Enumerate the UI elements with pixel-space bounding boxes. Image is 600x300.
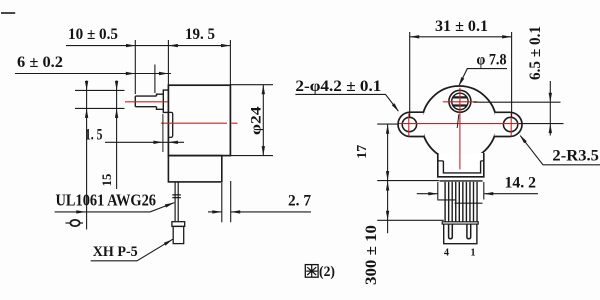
left ear hole [402,117,416,131]
left mounting ear [398,112,424,136]
dimension 2.7 [208,211,222,213]
lead wire (side view) [175,182,178,222]
dimension 1.5 [105,141,184,143]
svg-text:19. 5: 19. 5 [185,26,215,43]
extension line plate face [162,114,164,152]
extension ear center left [377,123,399,125]
dimension 17 / 300 vertical line [387,124,389,233]
dimension 14.2 [417,193,438,195]
svg-text:φ 7.8: φ 7.8 [477,52,507,69]
extension connector top [377,219,444,221]
dimension 6±0.2 [15,73,171,75]
shaft diameter guide line lower [75,107,125,109]
body top extension to phi24 dim [230,84,273,86]
extension skirt bottom [377,180,439,182]
shaft boss outer circle [449,90,471,112]
svg-text:10 ± 0.5: 10 ± 0.5 [68,26,118,43]
border tick top-left [1,12,15,14]
dimension 31±0.1 [410,36,512,38]
shaft diameter guide line upper [75,89,125,91]
shaft [135,96,156,107]
svg-text:1: 1 [471,248,476,259]
red centerlines front view [399,123,523,125]
extension line shaft step [154,65,156,94]
leader 2-R3.5 [520,136,600,165]
extension body right low [230,181,232,222]
shaft circle [452,93,468,109]
svg-text:(2): (2) [319,264,335,280]
wire bundle [445,182,477,222]
dimension 6.5±0.1 [549,81,551,136]
front plate [163,90,168,112]
dimension 19.5 line [168,44,178,47]
dimension phi24 line [262,85,264,156]
vertical leader line 1 [86,81,88,230]
label underline XH P-5 [91,239,173,261]
connector left prong [449,224,453,239]
phi symbol [66,222,84,224]
svg-text:6.5 ± 0.1: 6.5 ± 0.1 [527,26,544,80]
connector (front view) top bar [442,222,478,224]
svg-text:300 ± 10: 300 ± 10 [363,225,380,285]
svg-text:6 ± 0.2: 6 ± 0.2 [17,54,63,71]
svg-text:15: 15 [99,173,114,186]
skirt top lips [438,160,484,162]
figure label: glyph tu [305,265,318,278]
connector right prong [467,224,471,239]
leader 2-phi4.2 underline [295,94,398,111]
dimension 10±0.5 [66,45,231,47]
extension ear center right [519,123,564,125]
connector shell [444,224,477,244]
svg-text:2-φ4.2 ± 0.1: 2-φ4.2 ± 0.1 [295,78,381,95]
extension skirt left [437,182,439,200]
leader phi7.8 [459,69,507,85]
red centerline of shaft [125,101,168,103]
plate lower tab [169,112,173,137]
svg-text:φ24: φ24 [248,106,264,135]
right mounting ear [494,112,522,136]
motor body (side view) [168,85,230,155]
skirt inner U [443,161,480,173]
shaft D-flats [453,97,467,105]
svg-text:1. 5: 1. 5 [85,127,103,144]
svg-text:2-R3.5: 2-R3.5 [552,148,599,165]
extension line body front face [167,40,169,85]
body bottom extension to phi24 dim [230,155,273,157]
svg-text:XH P-5: XH P-5 [93,244,138,260]
svg-text:UL1061 AWG26: UL1061 AWG26 [56,191,157,210]
wire break lines [437,200,482,203]
bottom skirt [438,153,484,177]
svg-text:31 ± 0.1: 31 ± 0.1 [435,18,488,35]
leader overshoot below boss [457,114,459,128]
svg-text:2. 7: 2. 7 [288,193,311,210]
motor circle [422,86,497,161]
terminal housing box [168,156,221,182]
extension skirt right [483,182,485,200]
svg-text:17: 17 [355,145,370,159]
extension housing right [221,183,223,222]
extension line shaft tip [134,40,136,94]
vertical dim line 15 [116,81,118,190]
extension line body rear face [229,40,231,85]
extension lines 31 [409,32,411,118]
label underline UL1061 [55,203,175,212]
svg-text:14. 2: 14. 2 [504,175,536,192]
wire break ticks [172,195,181,198]
skirt lower lip [439,180,482,182]
connector XH plug (side view) [172,222,185,227]
shaft collar [157,94,164,109]
right ear hole [503,117,517,131]
red centerline of body [161,122,238,124]
svg-text:4: 4 [444,248,449,259]
extension shaft center right [474,101,561,103]
